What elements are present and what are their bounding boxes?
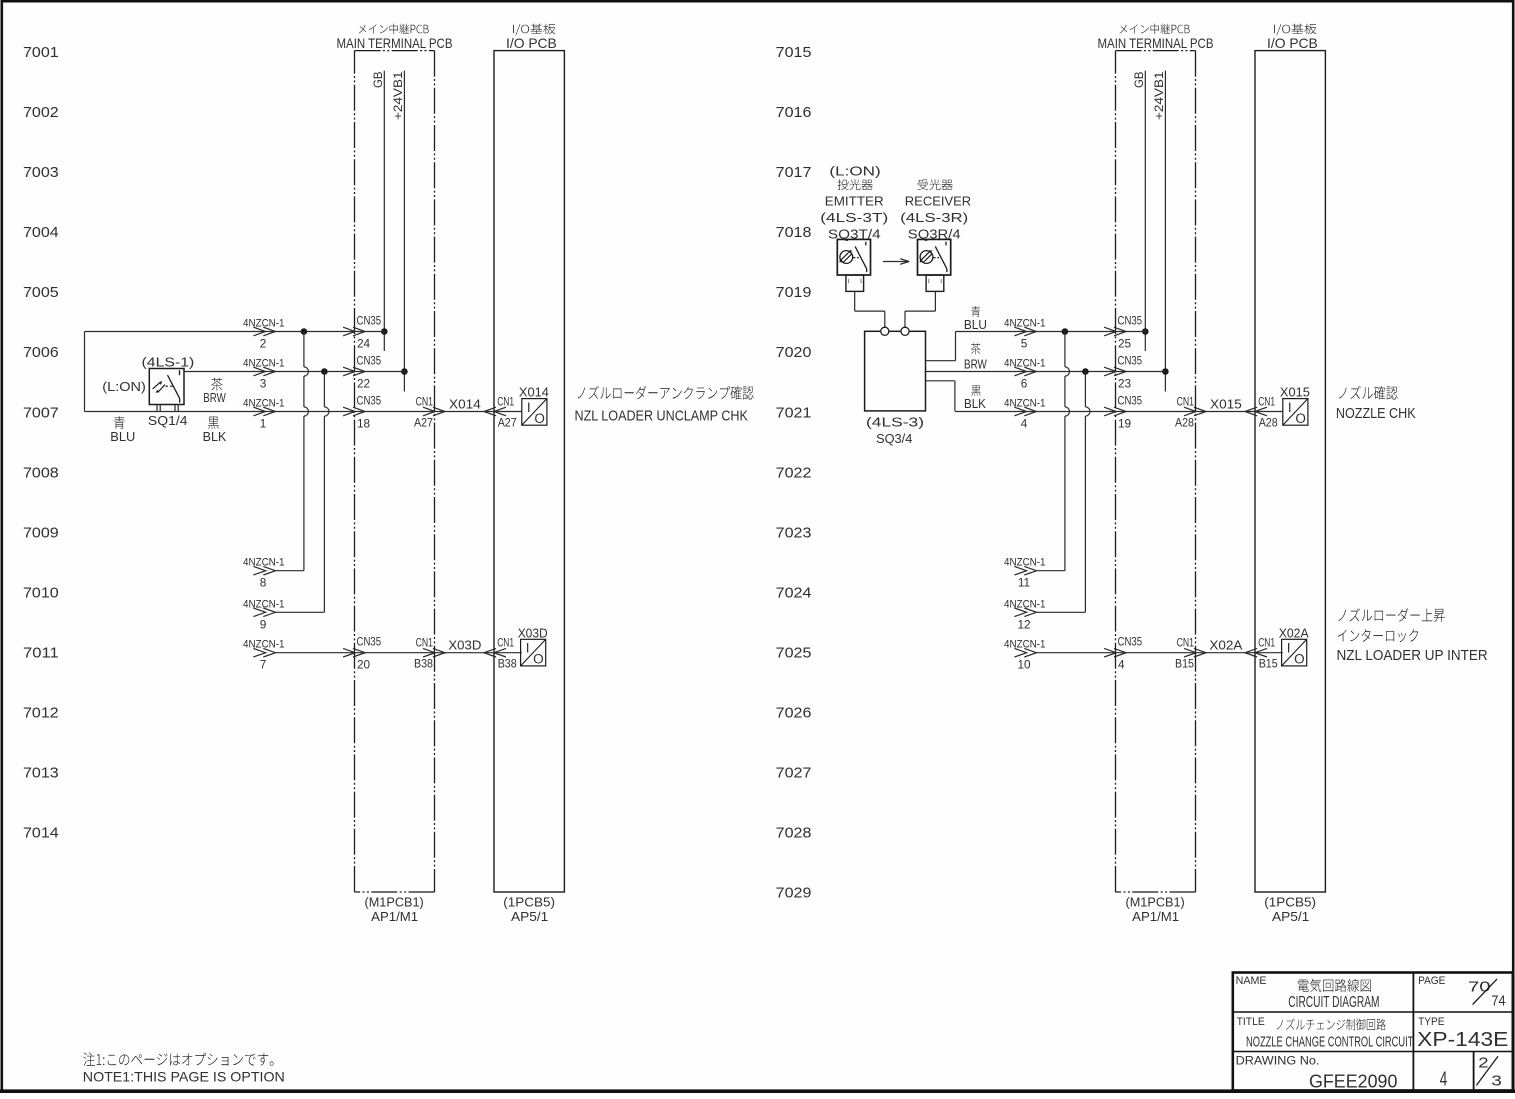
svg-text:7020: 7020 bbox=[776, 344, 812, 361]
svg-text:GB: GB bbox=[371, 72, 385, 89]
svg-text:19: 19 bbox=[1118, 417, 1131, 431]
SQ1/4 terminal stubs bbox=[157, 405, 178, 412]
svg-text:CN35: CN35 bbox=[357, 314, 382, 328]
connector CN1 pin A28 arrows at I/O PCB left edge bbox=[1245, 407, 1267, 416]
svg-text:24: 24 bbox=[357, 337, 371, 351]
svg-text:7006: 7006 bbox=[23, 344, 59, 361]
svg-text:NAME: NAME bbox=[1236, 975, 1267, 987]
svg-text:10: 10 bbox=[1017, 658, 1031, 672]
svg-text:EMITTER: EMITTER bbox=[825, 194, 884, 209]
svg-text:(1PCB5): (1PCB5) bbox=[503, 895, 555, 910]
svg-text:X015: X015 bbox=[1280, 386, 1310, 400]
svg-text:TYPE: TYPE bbox=[1418, 1016, 1444, 1028]
svg-text:CN35: CN35 bbox=[1118, 394, 1143, 408]
svg-text:X014: X014 bbox=[449, 398, 481, 412]
wire color 青 right bbox=[971, 306, 980, 317]
svg-text:70: 70 bbox=[1468, 978, 1491, 995]
svg-text:7002: 7002 bbox=[23, 104, 59, 121]
I/O PCB board outline x=1255.0 bbox=[1255, 51, 1325, 892]
photo sensor switch SQ3T/4 emitter bbox=[837, 239, 870, 275]
terminal box 4LS-3 (SQ3/4) bbox=[865, 327, 926, 411]
svg-text:7008: 7008 bbox=[23, 464, 59, 481]
svg-text:20: 20 bbox=[357, 658, 371, 672]
svg-text:7028: 7028 bbox=[776, 825, 812, 842]
connector CN1 pin A27 arrows at MAIN PCB right edge bbox=[423, 407, 445, 416]
wire receiver to 4LS-3 terminal bbox=[905, 291, 935, 327]
label I/O基板 bbox=[513, 24, 555, 36]
svg-text:CN1: CN1 bbox=[497, 636, 514, 650]
svg-text:4: 4 bbox=[1440, 1068, 1448, 1090]
svg-text:4: 4 bbox=[1021, 417, 1028, 431]
svg-text:O: O bbox=[533, 652, 544, 667]
svg-text:NZL LOADER UNCLAMP CHK: NZL LOADER UNCLAMP CHK bbox=[575, 408, 748, 425]
net GB vertical rail bbox=[383, 71, 385, 351]
svg-text:7025: 7025 bbox=[776, 645, 812, 662]
svg-text:CN1: CN1 bbox=[416, 395, 433, 409]
svg-text:+24VB1: +24VB1 bbox=[1152, 71, 1166, 120]
connector CN35 pin 24 arrows bbox=[343, 327, 365, 336]
svg-text:A28: A28 bbox=[1175, 416, 1194, 430]
svg-text:GB: GB bbox=[1132, 72, 1146, 89]
svg-text:(L:ON): (L:ON) bbox=[102, 380, 146, 394]
title ノズルチェンジ制御回路 bbox=[1277, 1019, 1386, 1031]
svg-text:CN35: CN35 bbox=[1118, 635, 1143, 649]
svg-text:7026: 7026 bbox=[776, 705, 812, 722]
svg-text:6: 6 bbox=[1021, 377, 1028, 391]
svg-text:8: 8 bbox=[260, 576, 267, 590]
junction +24VB1 to row B bbox=[1162, 368, 1169, 375]
svg-text:I/O PCB: I/O PCB bbox=[506, 35, 557, 51]
svg-text:18: 18 bbox=[357, 417, 371, 431]
svg-text:7004: 7004 bbox=[23, 224, 59, 241]
svg-text:7: 7 bbox=[260, 658, 267, 672]
svg-text:O: O bbox=[1295, 411, 1306, 426]
svg-text:TITLE: TITLE bbox=[1237, 1016, 1265, 1028]
junction dot row B branch bbox=[321, 368, 328, 375]
svg-text:7017: 7017 bbox=[776, 164, 812, 181]
wire row C right: 4LS-3 to I/O symbol X015 (BLK) bbox=[955, 411, 1283, 413]
connector CN35 pin 18 arrows bbox=[343, 407, 365, 416]
svg-text:MAIN TERMINAL PCB: MAIN TERMINAL PCB bbox=[337, 35, 453, 51]
annotation ノズルローダーアンクランプ確認 bbox=[578, 386, 754, 400]
line number column 7015-7029 bbox=[776, 44, 812, 902]
svg-text:SQ3R/4: SQ3R/4 bbox=[908, 227, 961, 242]
MAIN TERMINAL PCB board outline (dash-dot) x=354.5 bbox=[355, 51, 435, 892]
svg-text:7011: 7011 bbox=[23, 645, 59, 662]
annotation ノズルローダー上昇 bbox=[1338, 608, 1444, 622]
net GB vertical rail bbox=[1144, 71, 1146, 351]
branch vertical from row A to wire 8 with hops bbox=[304, 332, 309, 571]
connector CN35 pin 22 arrows bbox=[343, 367, 365, 376]
svg-text:CN35: CN35 bbox=[1118, 314, 1143, 328]
note 注1:このページはオプションです。 bbox=[83, 1052, 273, 1066]
I/O point symbol X03D bbox=[521, 639, 546, 666]
annotation ノズル確認 bbox=[1339, 386, 1398, 400]
wire 9 horizontal bbox=[276, 611, 325, 613]
svg-text:(4LS-3R): (4LS-3R) bbox=[900, 210, 968, 225]
svg-text:CN1: CN1 bbox=[497, 395, 514, 409]
svg-text:X015: X015 bbox=[1210, 398, 1242, 412]
svg-text:7001: 7001 bbox=[23, 44, 59, 61]
svg-text:7007: 7007 bbox=[23, 404, 59, 421]
photo sensor switch SQ3R/4 receiver bbox=[918, 239, 951, 275]
svg-text:CN1: CN1 bbox=[416, 636, 433, 650]
svg-text:CN35: CN35 bbox=[357, 394, 382, 408]
svg-text:(4LS-1): (4LS-1) bbox=[142, 355, 195, 370]
label メイン中継PCB bbox=[359, 24, 429, 35]
svg-text:CN35: CN35 bbox=[357, 354, 382, 368]
svg-text:7022: 7022 bbox=[776, 464, 812, 481]
svg-text:O: O bbox=[534, 411, 545, 426]
label I/O基板 bbox=[1274, 24, 1316, 36]
svg-text:X03D: X03D bbox=[448, 639, 481, 653]
svg-text:7016: 7016 bbox=[776, 104, 812, 121]
svg-text:AP1/M1: AP1/M1 bbox=[371, 909, 418, 924]
connector CN35 pin 23 arrows bbox=[1104, 367, 1126, 376]
svg-text:7013: 7013 bbox=[23, 765, 59, 782]
svg-text:7018: 7018 bbox=[776, 224, 812, 241]
svg-text:MAIN TERMINAL PCB: MAIN TERMINAL PCB bbox=[1098, 35, 1214, 51]
annotation インターロック bbox=[1338, 629, 1418, 642]
svg-text:B38: B38 bbox=[414, 657, 433, 671]
connector CN35 pin 20 arrows row F bbox=[343, 648, 365, 657]
I/O point symbol X015 bbox=[1283, 399, 1308, 426]
svg-text:9: 9 bbox=[260, 617, 267, 631]
connector CN35 pin 25 arrows bbox=[1104, 327, 1126, 336]
svg-text:A27: A27 bbox=[414, 416, 433, 430]
svg-text:7003: 7003 bbox=[23, 164, 59, 181]
wire color 黒 right bbox=[971, 385, 980, 396]
svg-text:AP5/1: AP5/1 bbox=[1272, 909, 1309, 924]
svg-text:I: I bbox=[1287, 641, 1291, 656]
wire emitter to 4LS-3 terminal bbox=[855, 291, 885, 327]
branch vertical from row B to wire 9 with hop bbox=[324, 372, 329, 613]
net +24VB1 vertical rail bbox=[1164, 71, 1166, 392]
svg-text:XP-143E: XP-143E bbox=[1417, 1029, 1508, 1051]
title 電気回路線図 bbox=[1298, 979, 1371, 992]
svg-text:A28: A28 bbox=[1259, 416, 1278, 430]
MAIN TERMINAL PCB board outline (dash-dot) x=1115.5 bbox=[1116, 51, 1196, 892]
connector CN1 pin A27 arrows at I/O PCB left edge bbox=[484, 407, 506, 416]
svg-text:+24VB1: +24VB1 bbox=[391, 71, 405, 120]
svg-text:12: 12 bbox=[1017, 617, 1030, 631]
wire row A left: loop to GB junction bbox=[85, 331, 385, 333]
wire row C: loop to I/O symbol X014 bbox=[85, 411, 522, 413]
svg-text:I/O PCB: I/O PCB bbox=[1267, 35, 1318, 51]
svg-text:5: 5 bbox=[1021, 337, 1028, 351]
svg-text:7024: 7024 bbox=[776, 584, 812, 601]
wire 11 horizontal bbox=[1037, 570, 1065, 572]
svg-text:BLK: BLK bbox=[203, 430, 227, 444]
svg-text:CIRCUIT DIAGRAM: CIRCUIT DIAGRAM bbox=[1288, 994, 1379, 1011]
svg-text:B38: B38 bbox=[498, 657, 517, 671]
svg-text:NZL LOADER UP INTER: NZL LOADER UP INTER bbox=[1337, 647, 1488, 664]
wire color 黒 bbox=[208, 417, 219, 429]
svg-text:7014: 7014 bbox=[23, 825, 59, 842]
svg-text:7015: 7015 bbox=[776, 44, 812, 61]
svg-text:1: 1 bbox=[260, 417, 267, 431]
svg-text:23: 23 bbox=[1118, 377, 1132, 391]
BLU jog vertical bbox=[926, 332, 956, 361]
svg-text:7019: 7019 bbox=[776, 284, 812, 301]
I/O point symbol X02A bbox=[1282, 639, 1307, 666]
beam arrow emitter to receiver bbox=[883, 259, 909, 265]
wire color 茶 right bbox=[971, 343, 981, 354]
wire 8 horizontal bbox=[276, 570, 304, 572]
label メイン中継PCB bbox=[1120, 24, 1190, 35]
svg-text:CN1: CN1 bbox=[1177, 636, 1194, 650]
svg-text:X02A: X02A bbox=[1209, 639, 1243, 653]
junction dot row A branch bbox=[301, 328, 308, 335]
svg-text:B15: B15 bbox=[1259, 657, 1278, 671]
svg-text:(L:ON): (L:ON) bbox=[829, 165, 880, 179]
svg-text:74: 74 bbox=[1491, 992, 1505, 1009]
svg-text:O: O bbox=[1294, 652, 1305, 667]
junction GB to row A bbox=[1142, 328, 1149, 335]
svg-text:AP1/M1: AP1/M1 bbox=[1132, 909, 1179, 924]
sheet fraction slash bbox=[1476, 1056, 1498, 1085]
svg-text:(M1PCB1): (M1PCB1) bbox=[365, 895, 424, 910]
wire row B: SQ1/4 to +24VB1 junction bbox=[184, 371, 404, 373]
svg-text:7005: 7005 bbox=[23, 284, 59, 301]
svg-text:GFEE2090: GFEE2090 bbox=[1309, 1071, 1397, 1091]
svg-text:BLU: BLU bbox=[110, 430, 135, 444]
svg-text:X014: X014 bbox=[519, 386, 549, 400]
wire loop vertical left of SQ1/4 bbox=[84, 332, 86, 412]
svg-text:2: 2 bbox=[1478, 1055, 1488, 1072]
svg-text:CN35: CN35 bbox=[357, 635, 382, 649]
svg-text:PAGE: PAGE bbox=[1418, 975, 1445, 987]
svg-text:11: 11 bbox=[1018, 576, 1030, 590]
junction +24VB1 to row B bbox=[401, 368, 408, 375]
connector CN1 pin B38 arrows row F right edge bbox=[423, 648, 445, 657]
svg-text:(1PCB5): (1PCB5) bbox=[1264, 895, 1316, 910]
svg-text:I: I bbox=[1288, 400, 1292, 415]
svg-text:BRW: BRW bbox=[203, 391, 226, 405]
net +24VB1 vertical rail bbox=[403, 71, 405, 392]
svg-text:RECEIVER: RECEIVER bbox=[905, 194, 971, 209]
svg-text:CN1: CN1 bbox=[1258, 395, 1275, 409]
svg-text:B15: B15 bbox=[1175, 657, 1194, 671]
connector CN1 pin B15 arrows row F right edge bbox=[1184, 648, 1206, 657]
svg-text:7027: 7027 bbox=[776, 765, 812, 782]
connector CN35 pin 19 arrows bbox=[1104, 407, 1126, 416]
BLK jog bbox=[926, 381, 955, 411]
svg-text:4: 4 bbox=[1118, 658, 1125, 672]
svg-text:3: 3 bbox=[1491, 1072, 1501, 1089]
title block frame bbox=[1233, 973, 1513, 1091]
svg-text:SQ3/4: SQ3/4 bbox=[876, 431, 912, 446]
svg-text:I: I bbox=[526, 641, 530, 656]
svg-text:BRW: BRW bbox=[964, 357, 987, 371]
svg-text:(M1PCB1): (M1PCB1) bbox=[1126, 895, 1185, 910]
svg-text:AP5/1: AP5/1 bbox=[511, 909, 548, 924]
svg-text:7010: 7010 bbox=[23, 584, 59, 601]
page fraction slash bbox=[1473, 979, 1497, 1004]
svg-text:7009: 7009 bbox=[23, 524, 59, 541]
svg-text:BLU: BLU bbox=[964, 318, 987, 332]
connector CN1 pin A28 arrows at MAIN PCB right edge bbox=[1184, 407, 1206, 416]
wire row A right: photo sensor to GB junction (BLU) bbox=[956, 331, 1146, 333]
svg-text:(4LS-3): (4LS-3) bbox=[866, 415, 924, 429]
SQ3T/4 emitter cable connector bbox=[846, 275, 864, 291]
svg-text:SQ3T/4: SQ3T/4 bbox=[828, 227, 881, 242]
line number column 7001-7014 bbox=[23, 44, 59, 842]
svg-text:SQ1/4: SQ1/4 bbox=[148, 413, 188, 428]
svg-text:X02A: X02A bbox=[1279, 626, 1310, 640]
label 投光器 bbox=[837, 179, 872, 190]
junction GB to row A bbox=[381, 328, 388, 335]
svg-text:NOZZLE CHK: NOZZLE CHK bbox=[1336, 405, 1416, 422]
svg-text:NOTE1:THIS PAGE IS OPTION: NOTE1:THIS PAGE IS OPTION bbox=[83, 1069, 285, 1085]
wire color 茶 bbox=[211, 378, 223, 391]
svg-text:I: I bbox=[527, 400, 531, 415]
svg-text:2: 2 bbox=[260, 337, 267, 351]
wire 12 horizontal bbox=[1037, 611, 1086, 613]
junction dot row B branch right bbox=[1082, 368, 1089, 375]
limit switch SQ1 (4LS-1) body bbox=[149, 369, 184, 405]
svg-text:CN35: CN35 bbox=[1118, 354, 1143, 368]
svg-text:CN1: CN1 bbox=[1258, 636, 1275, 650]
svg-text:BLK: BLK bbox=[964, 397, 987, 411]
SQ3R/4 receiver cable connector bbox=[926, 275, 944, 291]
svg-text:25: 25 bbox=[1118, 337, 1132, 351]
svg-text:NOZZLE CHANGE CONTROL CIRCUIT: NOZZLE CHANGE CONTROL CIRCUIT bbox=[1246, 1033, 1413, 1050]
connector CN35 pin 4 arrows row F bbox=[1104, 648, 1126, 657]
junction dot row A branch right bbox=[1062, 328, 1069, 335]
branch vertical row B to wire 12 with hop bbox=[1085, 372, 1090, 613]
svg-text:7029: 7029 bbox=[776, 885, 812, 902]
svg-text:3: 3 bbox=[260, 377, 267, 391]
wire row B right: 4LS-3 to +24VB1 junction (BRW) bbox=[926, 371, 1166, 373]
svg-text:7021: 7021 bbox=[776, 404, 812, 421]
svg-text:22: 22 bbox=[357, 377, 370, 391]
svg-text:A27: A27 bbox=[498, 416, 517, 430]
wire color 青 bbox=[114, 416, 125, 429]
I/O point symbol X014 bbox=[522, 399, 547, 426]
svg-text:CN1: CN1 bbox=[1177, 395, 1194, 409]
svg-text:7023: 7023 bbox=[776, 524, 812, 541]
svg-text:X03D: X03D bbox=[518, 626, 548, 640]
svg-text:7012: 7012 bbox=[23, 705, 59, 722]
I/O PCB board outline x=494.0 bbox=[494, 51, 564, 892]
svg-text:(4LS-3T): (4LS-3T) bbox=[820, 210, 888, 225]
label 受光器 bbox=[918, 179, 953, 190]
branch vertical row A to wire 11 with hops bbox=[1065, 332, 1070, 571]
svg-text:DRAWING No.: DRAWING No. bbox=[1236, 1056, 1320, 1068]
